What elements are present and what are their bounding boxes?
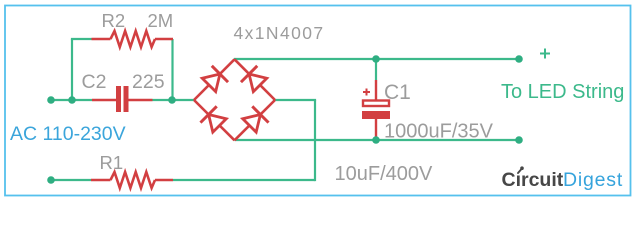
svg-text:Cırcuit: Cırcuit: [502, 169, 564, 191]
svg-text:AC 110-230V: AC 110-230V: [10, 123, 126, 145]
svg-text:225: 225: [132, 71, 165, 93]
svg-text:2M: 2M: [148, 10, 174, 31]
svg-text:Digest: Digest: [563, 169, 623, 191]
svg-text:R1: R1: [100, 152, 124, 173]
svg-text:To LED String: To LED String: [501, 81, 624, 103]
svg-text:R2: R2: [102, 10, 126, 31]
svg-text:1000uF/35V: 1000uF/35V: [384, 120, 494, 142]
svg-text:C2: C2: [82, 71, 107, 93]
svg-text:10uF/400V: 10uF/400V: [335, 163, 434, 185]
svg-text:4x1N4007: 4x1N4007: [234, 23, 325, 43]
svg-text:C1: C1: [384, 81, 411, 104]
